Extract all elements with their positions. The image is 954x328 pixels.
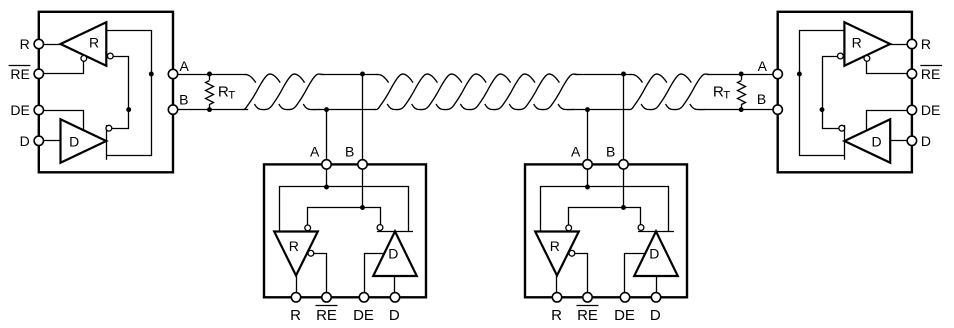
svg-text:DE: DE (614, 307, 635, 324)
pin B of U3 (358, 160, 367, 169)
U2 wire RE to receiver enable (867, 61, 912, 74)
wire U3 receiver enable (313, 254, 327, 298)
wire U3 receiver output (296, 276, 298, 298)
wire bus A right flat (707, 74, 778, 76)
U1 label DE pin (10, 102, 29, 118)
label U3 R pin (290, 307, 301, 324)
svg-text:D: D (388, 246, 398, 262)
wire U4 B line (569, 208, 641, 226)
U1 wire driver inverting output to B (112, 110, 129, 129)
U2 wire driver inverting output to B (823, 110, 839, 129)
pin DE of U4 (620, 293, 629, 302)
pin B of U1 (168, 105, 177, 114)
svg-text:D: D (20, 133, 30, 149)
wire stub A to lower-right transceiver (587, 110, 589, 161)
wire U3 A pin drop (326, 164, 328, 187)
node U3 B junction (360, 205, 365, 210)
bus twisted-pair section1 entry top strand (244, 75, 256, 83)
pin RE of U2 (907, 69, 916, 78)
label U4 R pin (551, 307, 562, 324)
wire U3 driver enable (365, 254, 385, 298)
inversion bubble U3 driver inverted output (377, 225, 383, 231)
svg-text:A: A (758, 58, 768, 74)
node RT right bottom junction (739, 107, 744, 112)
svg-text:D: D (650, 307, 661, 324)
U1 inversion bubble driver inverted output (106, 125, 112, 131)
U1 wire receiver B-input (114, 57, 129, 111)
wire U4 B pin drop (623, 164, 625, 207)
wire stub B to lower-right transceiver (623, 74, 625, 161)
bus twisted-pair section2 strand x2 (387, 74, 437, 110)
bus twisted-pair section2 entry top strand (376, 75, 389, 83)
U2 node A internal junction (797, 72, 802, 77)
resistor RT left (206, 81, 214, 105)
U1 wire DE to driver enable (39, 111, 84, 131)
pin B of U2 (773, 105, 782, 114)
wire stub B to lower-left transceiver (362, 74, 364, 161)
node stub A junction 2 (585, 107, 590, 112)
driver U2-D label (871, 133, 881, 149)
wire U4 A pin drop (587, 164, 589, 187)
U2 wire receiver A-input (800, 31, 845, 75)
wire stub A to lower-left transceiver (326, 110, 328, 161)
U2 wire receiver B-input (823, 57, 838, 111)
pin R of U3 (291, 293, 300, 302)
U1 label R pin (20, 36, 30, 52)
pin A of U2 (773, 69, 782, 78)
svg-text:D: D (649, 246, 659, 262)
bus twisted-pair section3 entry top strand (630, 75, 643, 83)
wire U3 driver output bar (377, 231, 413, 233)
receiver U3-R label (289, 238, 299, 254)
label U4 DE pin (614, 307, 635, 324)
U1 wire RE to receiver enable (39, 61, 84, 74)
svg-text:D: D (871, 133, 881, 149)
label node A right (758, 58, 768, 74)
U2 wire driver output bar (844, 125, 846, 160)
node RT left top junction (207, 72, 212, 77)
svg-text:D: D (69, 133, 79, 149)
label node B left (179, 91, 188, 107)
svg-text:DE: DE (10, 102, 29, 118)
label node B right (757, 91, 766, 107)
svg-text:A: A (180, 58, 190, 74)
svg-text:A: A (571, 143, 581, 159)
transceiver U2 block outline (778, 12, 912, 173)
driver amp U4-D (634, 231, 678, 276)
receiver amp U1-R (61, 22, 107, 65)
svg-text:R: R (921, 36, 931, 52)
resistor RT right leads (741, 74, 743, 110)
bus twisted-pair section1 strand x2 (254, 74, 304, 110)
svg-text:RE: RE (921, 66, 940, 82)
pin DE of U3 (359, 293, 368, 302)
svg-text:RE: RE (10, 66, 29, 82)
inversion bubble U3 receiver B-input (305, 225, 311, 231)
U1 wire driver output bar (106, 125, 108, 160)
label U4 D pin (650, 307, 661, 324)
driver U1-D label (69, 133, 79, 149)
driver U4-D label (649, 246, 659, 262)
svg-text:R: R (852, 35, 862, 51)
svg-text:R: R (550, 238, 560, 254)
pin RE of U3 (322, 293, 331, 302)
pin A of U4 (583, 160, 592, 169)
transceiver U4 block outline (525, 164, 687, 297)
wire U3 driver input (394, 276, 396, 297)
pin A of U3 (322, 160, 331, 169)
bus twisted-pair section2 strand x7 (509, 74, 559, 110)
node RT right top junction (739, 72, 744, 77)
bus twisted-pair section2 strand x1 (374, 74, 413, 110)
node U4 A junction (585, 185, 590, 190)
pin DE of U1 (34, 105, 43, 114)
U1 wire driver noninverting output to A (107, 75, 152, 156)
bus twisted-pair section3 strand x2 (641, 74, 691, 110)
svg-text:B: B (179, 91, 188, 107)
label U4 node B (606, 143, 615, 159)
svg-text:T: T (723, 89, 730, 101)
label U3 RE pin (316, 306, 338, 325)
U2 label D pin (921, 133, 931, 149)
wire U4 receiver output (556, 276, 558, 298)
U2 inversion bubble receiver enable (864, 56, 870, 62)
label U4 RE pin (577, 306, 599, 325)
wire U3 A line (280, 187, 409, 232)
inversion bubble U3 receiver enable (308, 250, 314, 256)
label RT right (713, 84, 730, 102)
svg-text:R: R (289, 238, 299, 254)
U1 inversion bubble receiver B-input (107, 53, 113, 59)
bus twisted-pair section1 exit bottom strand (303, 104, 320, 110)
node U3 A junction (324, 185, 329, 190)
node U4 B junction (621, 205, 626, 210)
wire U4 receiver enable (575, 254, 588, 298)
label RT left (218, 84, 235, 102)
bus twisted-pair section3 exit top strand (666, 74, 711, 110)
wire bus A left flat (173, 74, 247, 76)
pin D of U4 (651, 293, 660, 302)
U1 wire receiver A-input (107, 31, 152, 75)
label U3 DE pin (353, 307, 374, 324)
wire U3 B line (308, 208, 381, 226)
U2 inversion bubble receiver B-input (838, 53, 844, 59)
svg-text:R: R (551, 307, 562, 324)
svg-text:D: D (389, 307, 400, 324)
driver amp U3-D (373, 231, 417, 276)
U2 wire DE to driver enable (867, 111, 912, 131)
U1 wire D pin to driver input (39, 140, 61, 142)
pin RE of U1 (34, 69, 43, 78)
label U3 node B (345, 143, 354, 159)
receiver U2-R label (852, 35, 862, 51)
wire U3 B pin drop (362, 164, 364, 207)
svg-text:D: D (921, 133, 931, 149)
node stub B junction 2 (621, 72, 626, 77)
U1 node B internal junction (126, 107, 131, 112)
svg-text:RE: RE (316, 307, 337, 324)
bus twisted-pair section1 exit top strand (279, 74, 324, 110)
pin A of U1 (168, 69, 177, 78)
wire bus top flat at stub pair 2 (575, 74, 632, 76)
driver amp U2-D (844, 119, 890, 162)
receiver U4-R label (550, 238, 560, 254)
pin R of U1 (34, 39, 43, 48)
inversion bubble U4 receiver B-input (566, 225, 572, 231)
U2 inversion bubble driver inverted output (839, 125, 845, 131)
transceiver U3 block outline (264, 164, 426, 297)
bus twisted-pair section3 exit bottom strand (690, 104, 706, 110)
pin R of U2 (907, 39, 916, 48)
driver amp U1-D (61, 119, 107, 162)
pin D of U1 (34, 136, 43, 145)
U2 node B internal junction (820, 107, 825, 112)
wire bus B right flat (704, 109, 777, 111)
U1 label RE pin (9, 66, 31, 82)
U2 wire driver noninverting output to A (800, 75, 845, 156)
svg-text:DE: DE (921, 102, 940, 118)
label U3 node A (310, 143, 320, 159)
resistor RT right (738, 81, 746, 105)
svg-text:R: R (89, 35, 99, 51)
svg-text:RE: RE (577, 307, 598, 324)
node RT left bottom junction (207, 107, 212, 112)
resistor RT left leads (209, 74, 211, 110)
wire U4 driver enable (625, 254, 646, 298)
pin RE of U4 (583, 293, 592, 302)
inversion bubble U4 driver inverted output (638, 225, 644, 231)
U2 wire D pin to driver input (890, 140, 912, 142)
receiver U1-R label (89, 35, 99, 51)
bus twisted-pair section2 exit bottom strand (558, 104, 574, 110)
svg-text:T: T (228, 89, 235, 101)
svg-text:B: B (345, 143, 354, 159)
receiver amp U2-R (844, 22, 890, 65)
svg-text:A: A (310, 143, 320, 159)
pin R of U4 (552, 293, 561, 302)
inversion bubble U4 receiver enable (569, 250, 575, 256)
node stub A junction (324, 107, 329, 112)
wire U4 A line (541, 187, 669, 232)
pin D of U3 (390, 293, 399, 302)
receiver amp U4-R (535, 232, 579, 276)
wire bus B left flat (173, 109, 248, 111)
label U4 node A (571, 143, 581, 159)
U1 label D pin (20, 133, 30, 149)
bus twisted-pair section1 strand x1 (242, 74, 280, 110)
wire bus bottom flat at stub pair 1 (318, 109, 376, 111)
bus twisted-pair section2 strand x3 (412, 74, 462, 110)
U2 label R pin (921, 36, 931, 52)
driver U3-D label (388, 246, 398, 262)
wire U4 driver output bar (638, 231, 674, 233)
svg-text:B: B (606, 143, 615, 159)
bus twisted-pair section3 strand x1 (628, 74, 667, 110)
bus twisted-pair section2 strand x4 (436, 74, 486, 110)
label node A left (180, 58, 190, 74)
pin DE of U2 (907, 105, 916, 114)
label U3 D pin (389, 307, 400, 324)
bus twisted-pair section2 strand x5 (460, 74, 510, 110)
pin B of U4 (619, 160, 628, 169)
node stub B junction (360, 72, 365, 77)
bus twisted-pair section2 strand x6 (485, 74, 535, 110)
wire bus top flat at stub pair 1 (321, 74, 379, 76)
bus twisted-pair section2 exit top strand (534, 74, 579, 110)
receiver amp U3-R (274, 232, 318, 276)
U2 label DE pin (921, 102, 940, 118)
svg-text:R: R (20, 36, 30, 52)
wire U4 driver input (656, 276, 658, 297)
pin D of U2 (907, 136, 916, 145)
U1 node A internal junction (149, 72, 154, 77)
svg-text:B: B (757, 91, 766, 107)
U1 inversion bubble receiver enable (81, 56, 87, 62)
svg-text:DE: DE (353, 307, 374, 324)
U2 label RE pin (920, 66, 942, 82)
U1 wire R pin to receiver output (39, 44, 61, 46)
U2 wire R pin to receiver output (890, 44, 912, 46)
svg-text:R: R (290, 307, 301, 324)
transceiver U1 block outline (39, 12, 173, 173)
wire bus bottom flat at stub pair 2 (572, 109, 630, 111)
